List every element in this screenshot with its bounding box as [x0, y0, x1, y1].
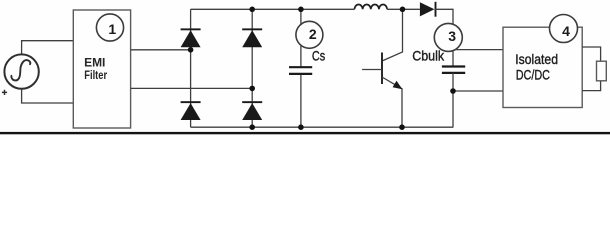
top rail diode to corner — [434, 9, 453, 66]
wire AC bottom to EMI filter — [22, 89, 74, 103]
svg-text:3: 3 — [448, 28, 456, 44]
plus polarity mark — [2, 90, 7, 95]
transistor Q1 emitter wire — [382, 77, 402, 127]
top rail wire — [191, 8, 355, 10]
bridge right branch wire — [251, 9, 253, 127]
bridge left branch wire — [190, 9, 192, 127]
wire EMI out bottom — [131, 87, 253, 89]
junction node Cbulk bottom — [450, 88, 456, 94]
callout circle 1 — [96, 14, 123, 41]
junction node Cs bottom — [298, 124, 304, 130]
AC source V1 — [4, 54, 38, 88]
boost diode D5 — [420, 2, 436, 17]
bottom border line — [0, 132, 610, 134]
transistor Q1 base wire — [362, 69, 382, 71]
wire node to DC/DC top input — [453, 49, 503, 51]
transistor Q1 emitter arrow — [393, 81, 403, 90]
svg-text:Isolated: Isolated — [515, 52, 558, 67]
svg-text:Cs: Cs — [312, 49, 325, 64]
diode D3 bottom-left — [181, 101, 201, 120]
junction node collector top — [400, 7, 406, 13]
capacitor Cbulk — [442, 67, 465, 73]
inductor L1 — [355, 4, 388, 9]
diode D1 top-left — [181, 28, 201, 47]
diode D4 bottom-right — [242, 101, 262, 120]
load resistor — [597, 61, 607, 81]
junction node Cs top — [298, 7, 304, 13]
EMI filter box — [73, 10, 130, 128]
wire node to DC/DC bottom input — [453, 90, 503, 92]
wire AC top to EMI filter — [22, 41, 74, 55]
bottom rail wire — [191, 126, 454, 128]
svg-text:Filter: Filter — [84, 68, 107, 82]
junction node bridge right top — [249, 7, 255, 13]
svg-text:4: 4 — [562, 23, 570, 39]
capacitor Cs — [289, 67, 312, 74]
wire EMI out top — [131, 49, 191, 51]
svg-text:1: 1 — [108, 21, 116, 37]
svg-text:DC/DC: DC/DC — [516, 68, 550, 83]
top rail after inductor — [387, 8, 420, 10]
diode D2 top-right — [242, 28, 262, 47]
junction node EMI bottom / bridge right — [249, 86, 255, 92]
Isolated DC/DC box — [503, 27, 582, 107]
wire DC/DC output bottom — [582, 81, 600, 91]
junction node emitter bottom — [399, 124, 405, 130]
wire DC/DC output top — [582, 47, 600, 61]
transistor Q1 bar — [381, 53, 383, 85]
Cbulk bottom wire — [452, 73, 454, 127]
junction node bridge right bottom — [249, 124, 255, 130]
Cs branch wire — [300, 9, 302, 127]
AC sine symbol — [11, 60, 30, 80]
callout circle 2 — [296, 21, 323, 48]
callout circle 3 — [434, 23, 462, 51]
svg-text:2: 2 — [309, 26, 317, 42]
callout circle 4 — [550, 15, 578, 43]
transistor Q1 collector wire — [382, 9, 403, 61]
svg-text:Cbulk: Cbulk — [412, 48, 444, 63]
junction node EMI top / bridge left — [188, 47, 194, 53]
